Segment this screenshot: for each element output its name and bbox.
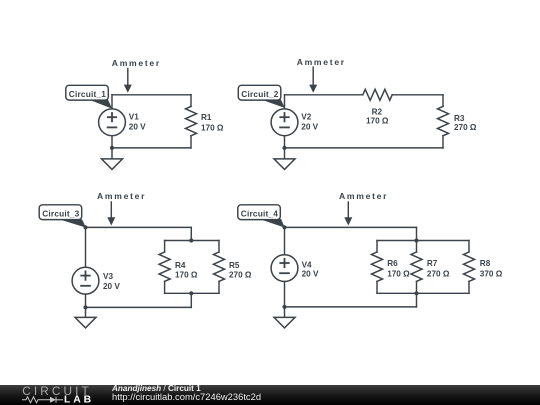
junction dot circuit 4 top-left anchor: [282, 225, 286, 229]
svg-text:20 V: 20 V: [302, 270, 319, 279]
svg-text:170 Ω: 170 Ω: [201, 124, 224, 133]
resistor R8: [464, 252, 475, 281]
svg-text:V4: V4: [302, 260, 312, 269]
wire: bank top bar circuit 4: [377, 240, 469, 242]
svg-text:170 Ω: 170 Ω: [175, 271, 198, 280]
svg-text:270 Ω: 270 Ω: [454, 123, 477, 132]
wire: right column top lead R1: [190, 95, 192, 107]
R2 labels: [366, 107, 389, 125]
ground symbol circuit 2: [274, 159, 295, 170]
R1 labels: [201, 113, 224, 132]
V1 labels: [129, 113, 146, 132]
footer bar: [0, 385, 540, 405]
flag label Circuit_4: [238, 205, 285, 228]
junction dot bank bottom circuit 4: [414, 291, 418, 295]
resistor R1: [186, 106, 197, 135]
resistor R3: [438, 106, 449, 135]
wire: R8 bottom lead: [468, 281, 470, 293]
wire: bottom rail circuit 1: [112, 147, 191, 149]
svg-text:270 Ω: 270 Ω: [229, 271, 252, 280]
R7 labels: [427, 259, 450, 278]
svg-text:R8: R8: [480, 259, 491, 268]
junction dot circuit 3 bottom: [83, 305, 87, 309]
wire: R1 bottom lead: [190, 136, 192, 148]
wire: V1 top to top rail: [111, 95, 113, 109]
resistor R6: [372, 252, 383, 281]
wire: top rail circuit 3: [86, 226, 192, 228]
wire: entry drop to parallel bank circuit 3: [190, 227, 192, 240]
R4 labels: [175, 261, 198, 280]
wire: R6 top lead: [376, 241, 378, 253]
CircuitLab logo schematic glyph: [22, 397, 63, 403]
svg-text:http://circuitlab.com/c7246w23: http://circuitlab.com/c7246w236tc2d: [112, 391, 261, 402]
wire: R7 top lead: [416, 241, 418, 253]
wire: entry drop to parallel bank circuit 4: [416, 227, 418, 240]
wire: R4 top lead: [164, 241, 166, 253]
junction dot bank top circuit 3: [189, 238, 193, 242]
wire: R8 top lead: [468, 241, 470, 253]
svg-text:20 V: 20 V: [301, 123, 318, 132]
svg-text:R7: R7: [427, 259, 438, 268]
wire: V2 bottom to ground: [284, 136, 286, 159]
wire: V4 bottom to ground: [284, 282, 286, 318]
wire: bottom rail circuit 3: [86, 306, 192, 308]
svg-text:Ammeter: Ammeter: [112, 58, 161, 68]
resistor R5: [214, 252, 225, 281]
svg-text:170 Ω: 170 Ω: [387, 270, 410, 279]
wire: bank bottom bar circuit 3: [165, 292, 219, 294]
wire: V4 top lead: [284, 227, 286, 254]
flag label Circuit_3: [39, 205, 86, 228]
V3 labels: [103, 272, 120, 291]
wire: top rail circuit 1: [112, 94, 191, 96]
svg-text:20 V: 20 V: [103, 282, 120, 291]
wire: V2 top to top rail: [284, 95, 286, 109]
wire: top rail circuit 4: [285, 226, 417, 228]
ground symbol circuit 4: [274, 317, 295, 328]
svg-text:Ammeter: Ammeter: [297, 57, 346, 67]
svg-text:Circuit_2: Circuit_2: [241, 89, 278, 99]
wire: exit drop circuit 4: [416, 293, 418, 307]
svg-text:LAB: LAB: [64, 395, 94, 405]
V4 labels: [302, 260, 319, 278]
voltage source V4: [271, 255, 298, 282]
V2 labels: [301, 113, 318, 132]
svg-text:R5: R5: [229, 261, 240, 270]
wire: bottom rail circuit 2: [285, 147, 444, 149]
svg-text:Circuit_3: Circuit_3: [42, 208, 79, 218]
svg-text:Ammeter: Ammeter: [339, 191, 388, 201]
svg-text:R6: R6: [387, 259, 398, 268]
wire: R5 bottom lead: [218, 281, 220, 293]
wire: V3 bottom to ground: [85, 294, 87, 317]
junction dot circuit 3 top-left anchor: [83, 225, 87, 229]
resistor R7: [411, 252, 422, 281]
svg-text:R1: R1: [201, 113, 212, 122]
wire: exit drop circuit 3: [190, 293, 192, 307]
ground symbol circuit 1: [102, 159, 123, 170]
wire: R3 bottom lead: [442, 136, 444, 148]
resistor R2: [363, 89, 392, 100]
svg-text:170 Ω: 170 Ω: [366, 117, 389, 126]
ammeter arrow (circuit 3): [107, 202, 115, 226]
svg-text:R2: R2: [372, 107, 383, 116]
ammeter arrow (circuit 4): [344, 202, 352, 226]
wire: top rail right segment circuit 2: [392, 94, 443, 96]
junction dot circuit 4 bottom: [282, 305, 286, 309]
svg-text:370 Ω: 370 Ω: [480, 270, 503, 279]
svg-text:R4: R4: [175, 261, 186, 270]
ammeter arrow (circuit 1): [124, 69, 132, 93]
R8 labels: [480, 259, 503, 278]
wire: V1 bottom to ground: [111, 136, 113, 159]
svg-text:Ammeter: Ammeter: [97, 191, 146, 201]
wire: R6 bottom lead: [376, 281, 378, 293]
svg-text:V2: V2: [301, 113, 311, 122]
wire: bottom rail circuit 4: [285, 306, 417, 308]
voltage source V1: [99, 109, 126, 136]
wire: right column top lead R3: [442, 95, 444, 107]
svg-text:V3: V3: [103, 272, 113, 281]
wire: R5 top lead: [218, 241, 220, 253]
wire: R4 bottom lead: [164, 281, 166, 293]
junction dot circuit 2 bottom: [282, 146, 286, 150]
wire: V3 top lead: [85, 227, 87, 267]
svg-text:V1: V1: [129, 113, 139, 122]
wire: bank bottom bar circuit 4: [377, 292, 469, 294]
flag label Circuit_1: [66, 85, 112, 108]
wire: R7 bottom lead: [416, 281, 418, 293]
junction dot circuit 1 bottom: [110, 146, 114, 150]
R3 labels: [454, 114, 477, 132]
R6 labels: [387, 259, 410, 278]
svg-text:R3: R3: [454, 114, 465, 123]
voltage source V3: [72, 267, 99, 294]
resistor R4: [159, 252, 170, 281]
wire: top rail left segment circuit 2: [285, 94, 363, 96]
ammeter arrow (circuit 2): [309, 67, 317, 93]
ground symbol circuit 3: [75, 317, 96, 328]
flag label Circuit_2: [238, 85, 285, 108]
junction dot bank top circuit 4: [414, 238, 418, 242]
svg-text:Circuit_1: Circuit_1: [69, 89, 106, 99]
junction dot bank bottom circuit 3: [189, 291, 193, 295]
svg-text:270 Ω: 270 Ω: [427, 270, 450, 279]
R5 labels: [229, 261, 252, 280]
wire: bank top bar circuit 3: [165, 240, 219, 242]
svg-text:20 V: 20 V: [129, 123, 146, 132]
voltage source V2: [271, 109, 298, 136]
svg-text:Circuit_4: Circuit_4: [241, 208, 278, 218]
